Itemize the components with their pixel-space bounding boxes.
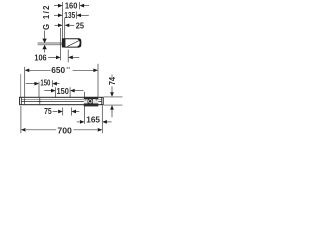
svg-text:165: 165 bbox=[86, 115, 100, 124]
svg-text:650: 650 bbox=[51, 66, 66, 75]
svg-text:135: 135 bbox=[64, 11, 76, 20]
svg-text:G 1/2: G 1/2 bbox=[42, 5, 51, 30]
svg-text:75: 75 bbox=[44, 107, 52, 116]
svg-text:150: 150 bbox=[57, 87, 70, 96]
svg-text:25: 25 bbox=[76, 21, 85, 30]
svg-text:74: 74 bbox=[108, 76, 117, 85]
svg-text:160: 160 bbox=[65, 1, 78, 10]
svg-text:**: ** bbox=[66, 67, 70, 73]
svg-text:106: 106 bbox=[34, 53, 47, 62]
svg-text:700: 700 bbox=[57, 127, 72, 136]
svg-text:150: 150 bbox=[40, 79, 51, 88]
